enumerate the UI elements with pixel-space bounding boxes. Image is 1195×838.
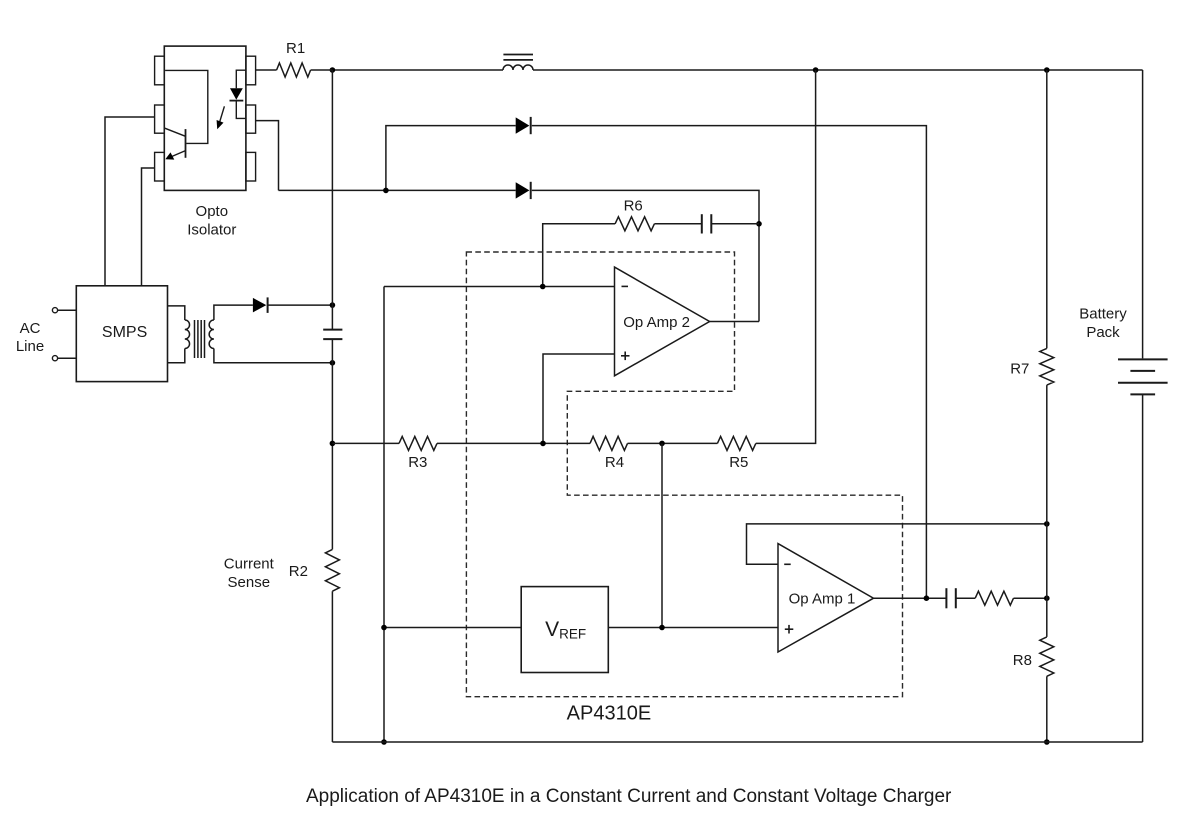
wire transformer primary bottom to SMPS (168, 349, 185, 363)
label R3 (408, 454, 427, 471)
wire main column top section (331, 70, 333, 329)
label R6 (624, 197, 643, 214)
label R1 (286, 40, 305, 57)
node top rail to R5 branch (813, 67, 819, 73)
wire op amp 2 inverting input (384, 286, 615, 288)
svg-text:R1: R1 (286, 40, 305, 57)
node top rail to R7 branch (1044, 67, 1050, 73)
op-amp U2 Op Amp 2 triangle (615, 267, 710, 376)
wire battery column bottom (1142, 394, 1144, 742)
battery BT1 (1118, 359, 1168, 394)
opto pin 6 (top-right) (246, 56, 256, 85)
op amp 1 minus sign (784, 563, 791, 565)
AP4310E dashed package outline (466, 252, 902, 697)
wire transformer secondary bottom (214, 349, 333, 363)
SMPS block (76, 286, 167, 382)
opto pin 4 (bottom-right) (246, 152, 256, 181)
wire R5 up to top rail (756, 70, 816, 443)
node sense to Vref wire (381, 625, 387, 631)
wire AC terminal 1 to SMPS (58, 309, 77, 311)
inductor L1 (503, 55, 533, 71)
node compensation to R7 column (1044, 595, 1050, 601)
node R8 bottom rail (1044, 739, 1050, 745)
wire op amp 2 non-inverting input (543, 354, 615, 443)
caption (306, 786, 952, 807)
label Opto Isolator (187, 203, 236, 239)
opto pin 3 (bottom-left) (155, 152, 165, 181)
diode D2 (516, 182, 531, 199)
opto LED cathode bar (230, 100, 244, 102)
wire R1 to node (311, 69, 333, 71)
wire D3 to output node (269, 304, 333, 306)
wire sense column (383, 287, 385, 743)
opto pin 2 (mid-left) (155, 105, 165, 133)
wire top rail from R1 node to inductor (332, 69, 503, 71)
svg-text:R5: R5 (729, 454, 748, 471)
wire R3 to R4 (437, 442, 590, 444)
wire battery column top (1142, 70, 1144, 358)
label R5 (729, 454, 748, 471)
wire D1 cathode to right column (532, 126, 927, 599)
opto light arrow (217, 106, 225, 129)
label Current Sense (224, 556, 275, 592)
opto internal divider box (165, 70, 208, 143)
svg-text:R3: R3 (408, 454, 427, 471)
label R8 (1013, 652, 1032, 669)
wire SMPS to transformer primary top (168, 306, 185, 320)
resistor R8 (1040, 637, 1054, 676)
node on D2 row (383, 188, 389, 194)
svg-text:Current: Current (224, 556, 275, 573)
svg-text:AC: AC (20, 320, 41, 337)
node R6 feedback junction (756, 221, 762, 227)
resistor R3 (399, 436, 437, 450)
svg-text:Application of AP4310E in a Co: Application of AP4310E in a Constant Cur… (306, 786, 952, 807)
resistor R6 (615, 217, 654, 231)
svg-text:Op Amp 2: Op Amp 2 (623, 314, 690, 331)
label AP4310E (567, 703, 652, 725)
compensation resistor (975, 591, 1013, 605)
label R2 (289, 563, 308, 580)
node Vref / divider junction (659, 625, 665, 631)
wire R4 to R5 (628, 442, 718, 444)
wire op amp 2 output (710, 321, 759, 323)
Vref block (521, 587, 608, 673)
svg-text:R2: R2 (289, 563, 308, 580)
label SMPS (102, 324, 147, 341)
svg-text:Op Amp 1: Op Amp 1 (789, 591, 856, 608)
phototransistor Q1 emitter with arrow (165, 151, 185, 160)
wire divider tap down to Vref output wire (661, 443, 663, 627)
transformer T1 primary winding (185, 320, 190, 349)
svg-text:Opto: Opto (196, 203, 229, 220)
node secondary bottom (330, 360, 336, 366)
wire op amp 1 feedback (747, 524, 1047, 564)
opto pin 1 (top-left) (155, 56, 165, 85)
diode D1 (516, 117, 531, 134)
wire transformer secondary top to diode D3 (214, 305, 253, 320)
op amp 1 plus sign (785, 625, 794, 634)
op amp 2 plus sign (621, 352, 630, 361)
wire Vref output to op amp 1 (608, 627, 778, 629)
op amp 2 minus sign (622, 285, 629, 287)
svg-text:AP4310E: AP4310E (567, 703, 652, 725)
label Op Amp 1 (789, 591, 856, 608)
resistor R2 (325, 549, 339, 591)
wire R7 column middle (1046, 385, 1048, 637)
opto pin 5 (mid-right) (246, 105, 256, 133)
wire D2 cathode to op amp 2 output column (532, 190, 759, 321)
wire op amp 1 output (874, 597, 947, 599)
wire opto pin5 elbow to diode row (256, 121, 279, 191)
resistor R5 (717, 436, 755, 450)
svg-text:R6: R6 (624, 197, 643, 214)
label Op Amp 2 (623, 314, 690, 331)
wire top rail from inductor to battery column (533, 69, 1143, 71)
wire main column mid section (331, 339, 333, 549)
wire C3 to compensation resistor (956, 597, 975, 599)
node current sense / R3 junction (330, 441, 336, 447)
wire opto pin3 to SMPS top (142, 168, 155, 286)
label Battery Pack (1079, 305, 1127, 340)
opto LED anode wire (236, 70, 246, 88)
AC line terminal 1 (52, 308, 57, 313)
node output to right column (924, 595, 930, 601)
wire R2 to bottom rail (331, 591, 333, 742)
wire opto pin2 to SMPS top (105, 117, 155, 286)
wire main column tap to Vref (384, 627, 521, 629)
resistor R7 (1040, 348, 1054, 385)
phototransistor Q1 base bar (185, 129, 187, 158)
opto LED cathode wire (236, 101, 246, 119)
capacitor C2 (702, 214, 712, 233)
svg-text:Isolator: Isolator (187, 221, 236, 238)
svg-text:R8: R8 (1013, 652, 1032, 669)
wire R7 column upper (1046, 70, 1048, 348)
wire R6 branch left (543, 224, 615, 287)
opto isolator U1 body (164, 46, 246, 190)
opto LED (photodiode) triangle (230, 88, 243, 100)
wire AC terminal 2 to SMPS (58, 357, 77, 359)
transformer T1 secondary winding (209, 320, 214, 349)
wire diode D1 row (upper) (386, 126, 516, 191)
phototransistor Q1 collector (165, 128, 186, 136)
svg-text:SMPS: SMPS (102, 324, 147, 341)
diode D3 (253, 297, 268, 313)
wire compensation resistor to R7 column (1014, 597, 1047, 599)
node R4-R5 divider tap (659, 441, 665, 447)
wire R8 to bottom rail (1046, 676, 1048, 742)
node at R1 / filter junction (330, 67, 336, 73)
label AC Line (16, 320, 44, 355)
label R7 (1010, 361, 1029, 378)
capacitor C3 compensation (946, 588, 955, 608)
svg-text:Line: Line (16, 338, 44, 355)
capacitor C1 output filter (323, 330, 342, 340)
wire R6 to capacitor C2 (654, 223, 701, 225)
label R4 (605, 454, 624, 471)
svg-text:Pack: Pack (1086, 324, 1120, 341)
wire C2 to node (711, 223, 759, 225)
transformer T1 core (195, 320, 205, 358)
wire diode D2 row (lower) (279, 189, 516, 191)
label VREF (545, 618, 586, 642)
AC line terminal 2 (52, 356, 57, 361)
node feedback to R7 column (1044, 521, 1050, 527)
svg-text:R7: R7 (1010, 361, 1029, 378)
resistor R4 (590, 436, 628, 450)
resistor R1 (277, 63, 311, 77)
svg-text:Sense: Sense (228, 574, 271, 591)
op-amp U2 Op Amp 1 triangle (778, 544, 874, 652)
wire node to R3 (332, 442, 399, 444)
svg-text:R4: R4 (605, 454, 624, 471)
node secondary top (330, 302, 336, 308)
wire bottom rail (332, 741, 1142, 743)
svg-text:Battery: Battery (1079, 305, 1127, 322)
node sense to bottom rail (381, 739, 387, 745)
wire opto pin6 to R1 (256, 69, 277, 71)
node minus input / R6 branch (540, 284, 546, 290)
node plus-input tap (540, 441, 546, 447)
